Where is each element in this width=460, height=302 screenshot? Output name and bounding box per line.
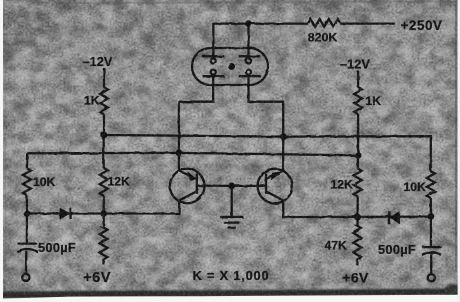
resistor 12K right [354,169,362,197]
node junction line A / right emitter column [280,134,286,140]
wire 1K left to line A [103,114,105,135]
wire bottom left collector line [27,204,179,214]
node junction 10K right / cap / diode [428,213,434,219]
transistor Q2 collector [266,191,283,205]
wire Q1 base lead [197,184,232,187]
tube V1 left top electrode bar [203,55,225,57]
label +6V left [83,270,111,286]
bottom scan border band [0,289,460,299]
right scan border line [455,0,458,272]
node junction 1K/12K right (line B end) [355,152,361,158]
label -12V right [340,56,370,71]
wire tube right plate lead [247,24,249,59]
resistor 47K [353,217,361,265]
label 47K [325,238,348,252]
label 1K left [84,94,100,108]
tube V1 right bottom electrode bar [239,75,261,77]
node junction top wire / tube right plate [246,21,252,27]
terminal right output [428,274,435,281]
wire cap C1 top lead [26,214,28,243]
wire -12V right lead [357,71,359,87]
wire Q2 base lead [232,185,266,187]
label 12K left [108,174,131,188]
wire line A (left 12K node to right 10K) [104,135,431,171]
transistor Q2 circle [258,169,293,204]
wire tube left plate lead [212,23,214,59]
transistor Q1 emitter with arrow [179,171,196,180]
wire right emitter column to Q2 [282,136,284,170]
wire bottom right collector line [283,204,431,218]
node junction base-base / ground [229,183,235,189]
resistor 10K right [427,171,435,198]
diode D1 [60,208,70,219]
wire top plate bus left segment [213,22,308,24]
tube V1 right top electrode bar [239,55,261,57]
wire -12V left lead [103,68,105,87]
tube V1 pin circle top-left [211,59,216,64]
wire cap C1 bottom lead [25,251,28,274]
wire right 12K top lead [357,155,360,168]
tube V1 pin circle bottom-left [211,70,216,75]
tube V1 center pin dot [228,63,234,69]
bottom-right corner blob [444,284,460,300]
resistor left bias (to +6V) [100,214,108,265]
label 820K [308,31,338,45]
label 10K left [33,175,56,189]
left faint border line [4,40,6,290]
wire cap C2 top lead [430,216,433,246]
wire 10K right bottom lead [430,198,432,216]
transistor Q1 collector [179,191,197,205]
label +250V [401,18,443,33]
label 500uF right [378,242,416,257]
node junction 12K left / collector line [101,211,107,217]
wire top bus right segment to +250V [340,22,395,24]
wire tube right cathode down [249,75,284,136]
tube V1 left bottom electrode bar [203,75,225,77]
capacitor C2 500uF [422,247,441,255]
ground symbol [220,217,243,228]
resistor 1K left [100,87,108,114]
wire 12K right bottom lead [356,197,358,218]
diode D2 [389,211,399,224]
label K = X 1,000 note [193,268,270,283]
resistor 12K left [100,168,108,196]
wire tube left cathode down [179,75,213,153]
wire 10K left bottom lead [26,195,28,213]
label 1K right [366,94,382,108]
transistor Q1 base bar [196,174,198,194]
capacitor C1 500uF [17,244,38,252]
wire left 12K top lead [103,135,105,168]
wire line B (left 10K to right 12K node) [27,153,358,155]
label 12K right [331,178,354,192]
vacuum tube V1 envelope [192,48,268,85]
tube V1 pin circle bottom-right [246,70,251,75]
wire left emitter column to Q1 [178,153,180,171]
transistor Q2 base bar [265,174,267,194]
wire ground lead [231,186,233,217]
tube V1 pin circle top-right [246,59,251,64]
resistor 1K right [354,87,362,114]
node junction 12K/47K right [355,214,361,220]
transistor Q2 emitter with arrow [266,171,283,180]
transistor Q1 circle [170,169,205,204]
label +6V right [342,270,369,286]
label -12V left [83,54,113,69]
node junction 10K left / cap / diode [24,211,30,217]
node junction line B / left emitter column [176,150,182,156]
wire 1K right to line B [357,114,359,155]
node junction 1K/12K left [101,132,107,138]
resistor 820K [308,19,340,27]
resistor 10K left [23,168,31,195]
wire cap C2 bottom lead [430,254,432,274]
wire 12K left bottom lead [103,196,105,214]
wire left 10K top lead [26,153,29,168]
label 500uF left [38,240,76,255]
top scan border faint line [55,1,460,3]
white scan margins [0,0,3,302]
label 10K right [404,180,427,194]
terminal left output [22,274,29,281]
